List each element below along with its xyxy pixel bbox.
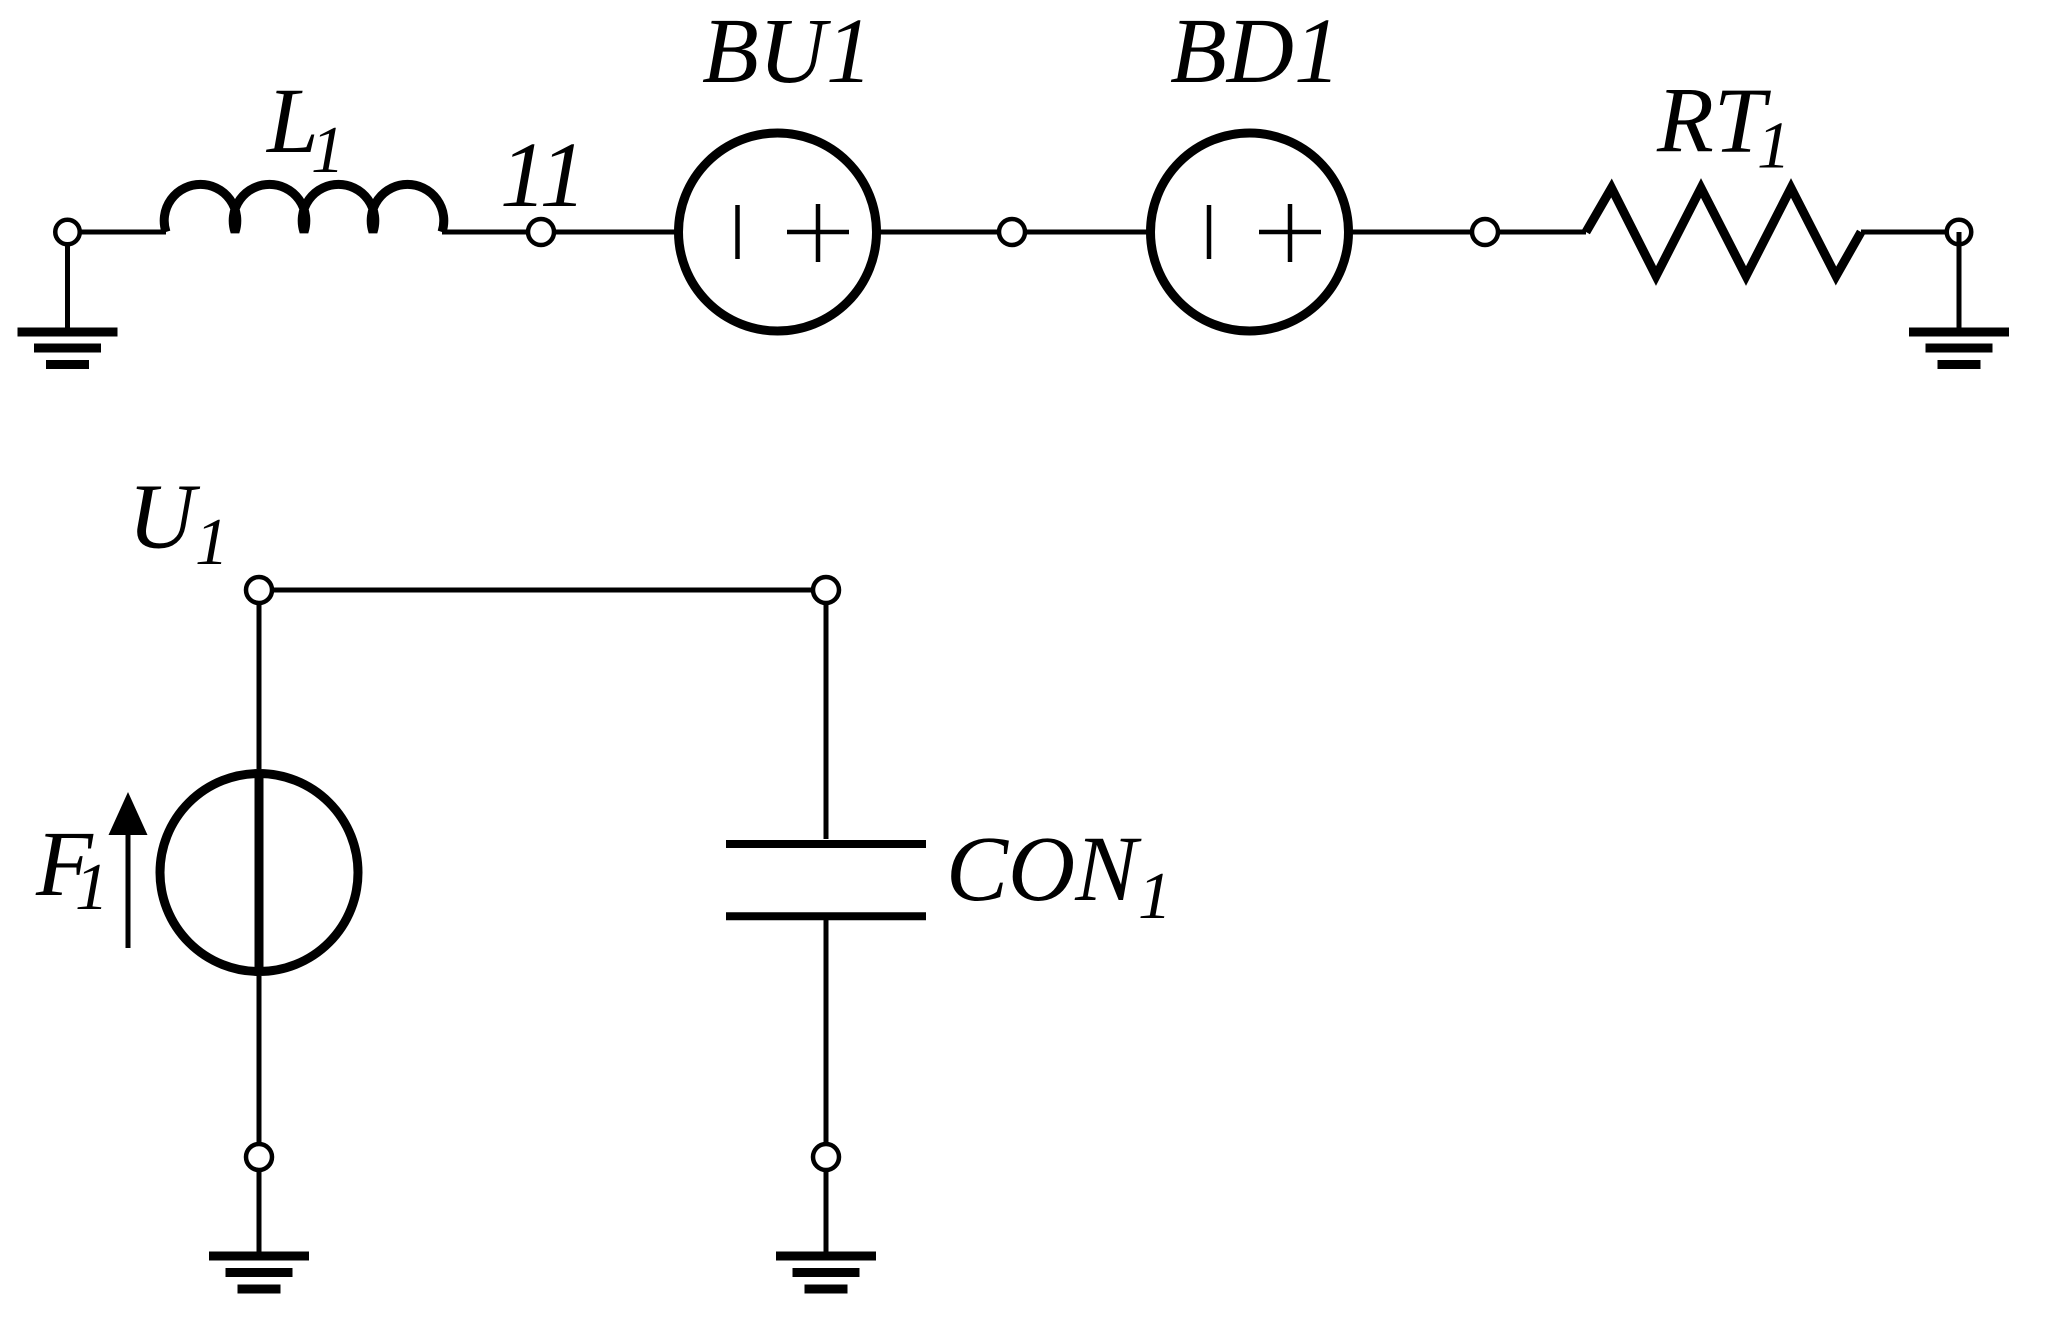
label RT1	[1656, 70, 1791, 183]
capacitor CON1	[726, 844, 926, 916]
label BU1	[702, 0, 872, 103]
ground (top right)	[1909, 332, 2009, 365]
label F1	[35, 813, 109, 924]
svg-text:1: 1	[1757, 109, 1791, 183]
ground (bottom right)	[776, 1256, 876, 1289]
node after BD1	[1472, 219, 1498, 245]
wire right terminal to ground	[1957, 232, 1962, 328]
wire bottom right node to ground	[824, 1170, 829, 1252]
inductor L1	[164, 184, 444, 232]
wire right column upper	[824, 590, 829, 839]
label 11	[500, 124, 586, 227]
source BD1	[1151, 133, 1349, 331]
mid node	[999, 219, 1025, 245]
ground (top left)	[18, 332, 118, 365]
label U1	[128, 466, 229, 580]
svg-text:1: 1	[75, 850, 109, 924]
wire resistor to right terminal	[1861, 230, 1946, 235]
wire inductor to node 11	[442, 230, 530, 235]
resistor RT1	[1586, 188, 1861, 276]
node top right circle	[813, 577, 839, 603]
node top left circle	[246, 577, 272, 603]
wire BD1 to right node	[1349, 230, 1473, 235]
label CON1	[946, 818, 1172, 933]
source F1	[160, 774, 358, 972]
svg-text:U: U	[128, 466, 201, 569]
terminal node right	[1947, 220, 1972, 245]
node bottom left	[246, 1144, 272, 1170]
ground (bottom left)	[209, 1256, 309, 1289]
svg-text:CON: CON	[946, 818, 1142, 921]
wire BU1 to mid node	[877, 230, 1001, 235]
wire terminal to inductor	[80, 230, 166, 235]
wire node 11 to BU1	[554, 230, 681, 235]
svg-text:BD1: BD1	[1170, 0, 1340, 103]
wire F1 to bottom node	[257, 976, 262, 1144]
label L1	[265, 70, 345, 187]
wire capacitor to bottom node	[824, 920, 829, 1144]
node bottom right	[813, 1144, 839, 1170]
svg-text:BU1: BU1	[702, 0, 872, 103]
wire left terminal to ground	[65, 232, 70, 328]
wire top horizontal	[259, 588, 826, 593]
wire mid node to BD1	[1025, 230, 1151, 235]
svg-text:1: 1	[195, 505, 229, 579]
svg-text:1: 1	[1138, 859, 1172, 933]
arrow F1	[109, 792, 148, 948]
svg-text:RT: RT	[1656, 70, 1772, 173]
node U1 top left	[257, 590, 262, 769]
node 11	[528, 219, 554, 245]
wire bottom left node to ground	[257, 1170, 262, 1252]
svg-text:1: 1	[311, 113, 345, 187]
source BU1	[679, 133, 877, 331]
svg-text:11: 11	[500, 124, 586, 227]
terminal node left	[55, 220, 80, 245]
wire node to resistor	[1498, 230, 1587, 235]
label BD1	[1170, 0, 1340, 103]
